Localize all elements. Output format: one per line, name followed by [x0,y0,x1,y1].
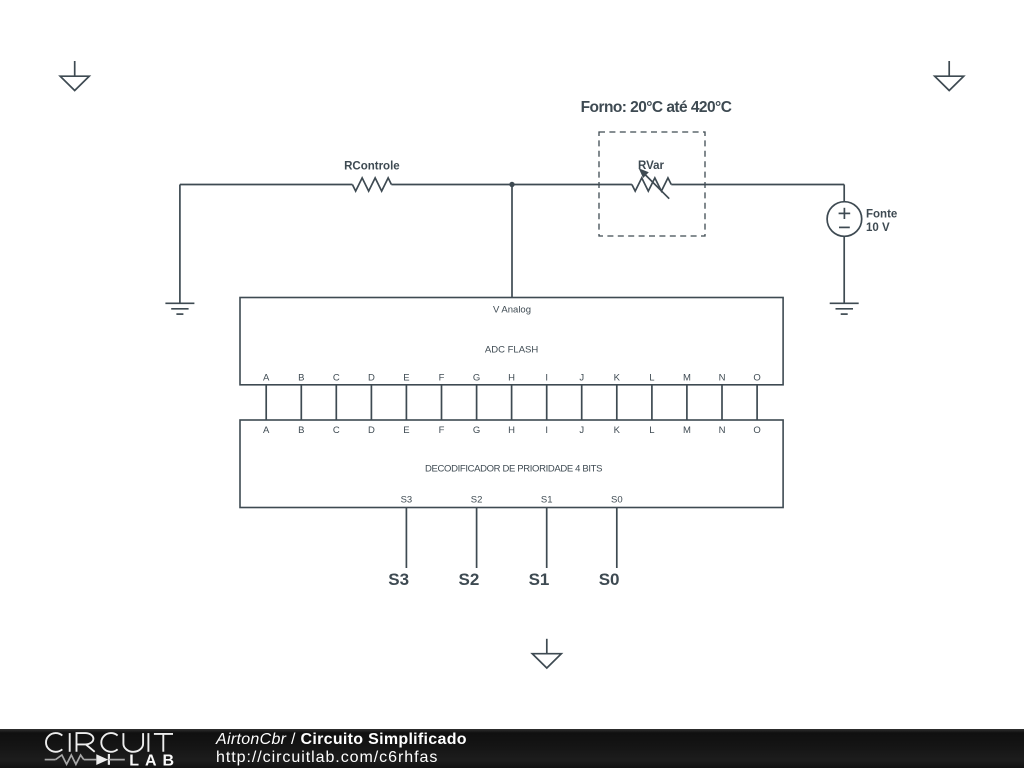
logo letter I [69,733,71,752]
ground GND left [165,303,194,314]
ground GND right [830,303,859,314]
svg-text:Forno: 20°C até 420°C: Forno: 20°C até 420°C [581,99,732,116]
svg-text:L: L [649,425,654,436]
footer text [216,731,467,767]
resistor RControle [352,178,391,191]
pin labels A-O on decoder [263,425,761,436]
svg-text:E: E [403,425,409,436]
IC box ADC FLASH [240,298,783,385]
wire left vertical [179,185,181,304]
logo letter T [154,734,173,752]
svg-text:S3: S3 [401,495,413,506]
svg-text:I: I [545,373,548,384]
logo wire middle [84,759,97,761]
svg-text:K: K [614,425,621,436]
svg-text:F: F [439,373,445,384]
resistor RVar (variable) [632,168,671,199]
wire node down to ADC (V Analog pin) [511,185,513,298]
ground symbol top-left (antenna-style) [60,61,89,91]
svg-text:O: O [753,425,760,436]
svg-text:LAB: LAB [129,752,180,768]
wire resistor to node [391,184,512,186]
svg-text:C: C [333,425,340,436]
svg-text:D: D [368,373,375,384]
ground symbol top-right (antenna-style) [935,61,964,91]
svg-text:A: A [263,373,270,384]
svg-text:A: A [263,425,270,436]
logo letter U [123,733,143,752]
svg-text:H: H [508,373,515,384]
svg-text:S2: S2 [459,570,480,589]
node junction [509,182,514,187]
wire node to RVar [512,184,632,186]
svg-text:RControle: RControle [344,161,400,173]
pin wires A-O between ADC and decoder [266,385,757,420]
svg-text:S0: S0 [611,495,623,506]
svg-text:D: D [368,425,375,436]
logo letter R [77,733,95,752]
svg-text:DECODIFICADOR DE PRIORIDADE 4: DECODIFICADOR DE PRIORIDADE 4 BITS [425,463,602,474]
svg-text:10 V: 10 V [866,222,890,234]
svg-text:F: F [439,425,445,436]
svg-text:M: M [683,373,691,384]
IC box decoder [240,420,783,508]
svg-text:O: O [753,373,760,384]
svg-text:M: M [683,425,691,436]
logo wire left [45,759,56,761]
logo letter I [147,733,149,752]
logo diode bar [108,754,110,765]
svg-text:B: B [298,373,304,384]
svg-text:H: H [508,425,515,436]
wire left horizontal to resistor [180,184,353,186]
svg-text:S1: S1 [529,570,550,589]
voltage source Fonte circle [827,202,862,237]
wire S2 [476,508,478,569]
svg-text:J: J [579,425,584,436]
logo resistor zigzag [56,755,84,764]
wire source to ground [843,236,845,303]
svg-text:I: I [545,425,548,436]
dashed box Forno [599,132,705,236]
svg-text:ADC FLASH: ADC FLASH [485,344,538,355]
svg-text:RVar: RVar [638,160,665,172]
svg-text:S1: S1 [541,495,553,506]
svg-text:S3: S3 [388,570,409,589]
CircuitLab logo [46,733,173,752]
svg-text:L: L [649,373,654,384]
wire right corner down to source [843,185,845,202]
pin labels S3 S2 S1 S0 on decoder [401,495,623,506]
svg-text:Fonte: Fonte [866,209,897,221]
svg-text:G: G [473,373,480,384]
svg-text:S0: S0 [599,570,620,589]
svg-text:V Analog: V Analog [493,304,531,315]
wire S0 [616,508,618,569]
logo wire right [109,759,125,761]
footer bar [0,729,1024,768]
svg-text:E: E [403,373,409,384]
svg-text:N: N [719,425,726,436]
svg-text:S2: S2 [471,495,483,506]
wire S1 [546,508,548,569]
wire S3 [405,508,407,569]
svg-text:J: J [579,373,584,384]
svg-text:B: B [298,425,304,436]
svg-text:C: C [333,373,340,384]
logo letter C [101,733,117,752]
svg-text:K: K [614,373,621,384]
wire RVar to right corner [671,184,844,186]
svg-text:N: N [719,373,726,384]
svg-text:G: G [473,425,480,436]
pin labels A-O on ADC [263,373,761,384]
logo diode [96,754,108,765]
logo letter C [46,733,62,752]
ground symbol bottom (antenna-style) [532,639,561,668]
